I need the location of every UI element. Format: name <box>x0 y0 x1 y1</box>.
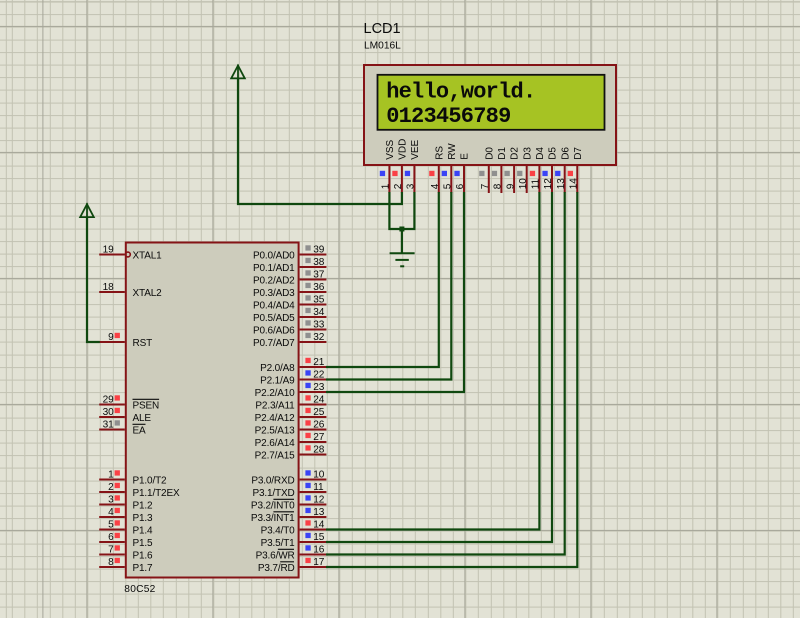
pin 35 P0.4/AD4 (right) <box>253 295 326 312</box>
wire U1 P2.0/A8 to LCD RS <box>326 192 439 367</box>
wire U1 P3.5/T1 to LCD D5 <box>326 192 552 542</box>
svg-text:P0.0/AD0: P0.0/AD0 <box>253 251 295 262</box>
svg-text:14: 14 <box>313 520 325 531</box>
LCD pin 2 VDD <box>392 139 408 193</box>
wire U1 P2.2/A10 to LCD E <box>326 192 464 392</box>
pin 14 P3.4/T0 (right) <box>261 520 327 537</box>
svg-text:P3.0/RXD: P3.0/RXD <box>251 476 294 487</box>
svg-text:P0.3/AD3: P0.3/AD3 <box>253 288 295 299</box>
svg-text:13: 13 <box>556 178 567 190</box>
svg-text:21: 21 <box>313 357 325 368</box>
svg-text:1: 1 <box>108 470 114 481</box>
svg-text:P3.1/TXD: P3.1/TXD <box>252 488 294 499</box>
80C52 microcontroller U1 body <box>126 243 299 578</box>
svg-text:D6: D6 <box>560 147 571 160</box>
svg-text:RW: RW <box>447 143 458 160</box>
svg-text:9: 9 <box>108 332 114 343</box>
LCD pin 14 D7 <box>568 147 584 193</box>
svg-text:P0.6/AD6: P0.6/AD6 <box>253 326 295 337</box>
pin 29 PSEN (left) <box>99 395 159 412</box>
LCD pin 10 D3 <box>517 147 533 193</box>
svg-text:4: 4 <box>430 183 441 189</box>
svg-text:10: 10 <box>518 178 529 190</box>
svg-text:36: 36 <box>313 282 325 293</box>
svg-text:11: 11 <box>531 178 542 189</box>
LCD pin 4 RS <box>429 146 445 193</box>
pin 1 P1.0/T2 (left) <box>99 470 167 487</box>
pin 21 P2.0/A8 (right) <box>260 357 326 374</box>
pin 32 P0.7/AD7 (right) <box>253 332 326 349</box>
svg-text:23: 23 <box>313 382 325 393</box>
LCD1 reference label <box>364 21 401 37</box>
svg-text:11: 11 <box>313 482 324 493</box>
svg-text:27: 27 <box>313 432 325 443</box>
svg-text:13: 13 <box>313 507 325 518</box>
svg-text:39: 39 <box>313 245 325 256</box>
pin 22 P2.1/A9 (right) <box>260 370 326 387</box>
svg-text:18: 18 <box>103 282 115 293</box>
pin 6 P1.5 (left) <box>99 532 153 549</box>
svg-text:P3.5/T1: P3.5/T1 <box>261 538 296 549</box>
pin 24 P2.3/A11 (right) <box>255 395 326 412</box>
svg-text:P3.4/T0: P3.4/T0 <box>261 526 296 537</box>
wire junction to ground <box>401 229 403 253</box>
junction dot <box>399 227 404 232</box>
pin 23 P2.2/A10 (right) <box>255 382 327 399</box>
pin 15 P3.5/T1 (right) <box>261 532 327 549</box>
LCD pin 11 D4 <box>530 147 546 193</box>
svg-text:24: 24 <box>313 395 325 406</box>
svg-text:30: 30 <box>103 407 115 418</box>
svg-text:P2.3/A11: P2.3/A11 <box>255 401 295 412</box>
svg-text:28: 28 <box>313 445 325 456</box>
svg-text:D4: D4 <box>535 147 546 160</box>
svg-text:LM016L: LM016L <box>364 41 401 52</box>
svg-text:XTAL2: XTAL2 <box>133 288 163 299</box>
svg-text:P1.5: P1.5 <box>133 538 154 549</box>
svg-text:19: 19 <box>103 245 115 256</box>
svg-text:5: 5 <box>108 520 114 531</box>
LCD pin 8 D1 <box>492 147 508 193</box>
pin 19 XTAL1 (left) <box>99 245 162 262</box>
wire U1 P3.4/T0 to LCD D4 <box>326 192 539 530</box>
svg-text:LCD1: LCD1 <box>364 21 401 37</box>
wire VDD arrow to LCD pin2 VDD <box>238 78 402 204</box>
pin 31 EA (left) <box>99 420 146 437</box>
svg-text:80C52: 80C52 <box>124 584 155 595</box>
svg-text:P1.3: P1.3 <box>133 513 154 524</box>
svg-text:32: 32 <box>313 332 325 343</box>
svg-text:D5: D5 <box>548 147 559 160</box>
LCD pin 7 D0 <box>479 147 495 193</box>
svg-text:P2.7/A15: P2.7/A15 <box>255 451 296 462</box>
svg-text:16: 16 <box>313 545 325 556</box>
svg-text:P3.3/INT1: P3.3/INT1 <box>251 513 295 524</box>
pin 25 P2.4/A12 (right) <box>255 407 327 424</box>
svg-text:P1.0/T2: P1.0/T2 <box>133 476 168 487</box>
svg-text:P0.2/AD2: P0.2/AD2 <box>253 276 295 287</box>
pin 26 P2.5/A13 (right) <box>255 420 327 437</box>
svg-text:0123456789: 0123456789 <box>386 104 510 129</box>
LCD screen with text <box>378 75 605 130</box>
svg-text:2: 2 <box>108 482 114 493</box>
svg-text:6: 6 <box>108 532 114 543</box>
pin 16 P3.6/WR (right) <box>256 545 327 562</box>
svg-text:17: 17 <box>313 557 325 568</box>
svg-text:PSEN: PSEN <box>133 401 160 412</box>
power terminal (RST arrow, left) <box>80 203 94 217</box>
svg-text:VEE: VEE <box>410 139 421 159</box>
svg-text:P0.5/AD5: P0.5/AD5 <box>253 313 295 324</box>
svg-text:1: 1 <box>381 183 392 189</box>
svg-text:33: 33 <box>313 320 325 331</box>
svg-text:12: 12 <box>543 178 554 190</box>
svg-text:10: 10 <box>313 470 325 481</box>
wire U1 P3.7/RD to LCD D7 <box>326 192 577 567</box>
svg-text:3: 3 <box>108 495 114 506</box>
LCD pin 5 RW <box>442 143 458 193</box>
svg-text:P0.7/AD7: P0.7/AD7 <box>253 338 295 349</box>
svg-text:38: 38 <box>313 257 325 268</box>
LCD display LCD1 LM016L body <box>364 65 616 165</box>
svg-text:4: 4 <box>108 507 114 518</box>
svg-text:D0: D0 <box>484 147 495 160</box>
svg-text:P0.4/AD4: P0.4/AD4 <box>253 301 295 312</box>
svg-text:P3.2/INT0: P3.2/INT0 <box>251 501 295 512</box>
LCD pin 13 D6 <box>555 147 571 193</box>
svg-text:P3.6/WR: P3.6/WR <box>256 551 295 562</box>
svg-text:37: 37 <box>313 270 325 281</box>
svg-text:P2.2/A10: P2.2/A10 <box>255 388 296 399</box>
svg-text:P2.5/A13: P2.5/A13 <box>255 426 296 437</box>
pin 17 P3.7/RD (right) <box>258 557 327 574</box>
wire LCD VSS pin1 to ground junction <box>389 192 402 229</box>
ground symbol <box>390 253 415 266</box>
pin 39 P0.0/AD0 (right) <box>253 245 326 262</box>
pin 12 P3.2/INT0 (right) <box>251 495 326 512</box>
svg-text:8: 8 <box>493 183 504 189</box>
svg-text:31: 31 <box>103 420 115 431</box>
LCD pin 9 D2 <box>505 147 521 193</box>
svg-text:P2.1/A9: P2.1/A9 <box>260 376 295 387</box>
svg-text:P2.6/A14: P2.6/A14 <box>255 438 296 449</box>
pin 10 P3.0/RXD (right) <box>251 470 326 487</box>
power terminal (VDD arrow, top) <box>231 65 245 79</box>
svg-text:RST: RST <box>133 338 153 349</box>
svg-text:EA: EA <box>133 426 147 437</box>
pin 33 P0.6/AD6 (right) <box>253 320 326 337</box>
svg-text:5: 5 <box>443 183 454 189</box>
pin 8 P1.7 (left) <box>99 557 153 574</box>
LCD pin 3 VEE <box>405 139 421 193</box>
pin 13 P3.3/INT1 (right) <box>251 507 326 524</box>
svg-text:P2.4/A12: P2.4/A12 <box>255 413 296 424</box>
pin 9 RST (left) <box>99 332 152 349</box>
pin 30 ALE (left) <box>99 407 151 424</box>
svg-text:P0.1/AD1: P0.1/AD1 <box>253 263 295 274</box>
pin 28 P2.7/A15 (right) <box>255 445 327 462</box>
pin 3 P1.2 (left) <box>99 495 153 512</box>
svg-text:D2: D2 <box>510 147 521 160</box>
svg-text:22: 22 <box>313 370 325 381</box>
svg-text:E: E <box>460 153 471 160</box>
svg-text:3: 3 <box>406 183 417 189</box>
pin 38 P0.1/AD1 (right) <box>253 257 326 274</box>
LCD pin 6 E <box>454 153 470 193</box>
svg-text:P3.7/RD: P3.7/RD <box>258 563 295 574</box>
svg-text:P1.2: P1.2 <box>133 501 154 512</box>
svg-text:29: 29 <box>103 395 115 406</box>
pin 2 P1.1/T2EX (left) <box>99 482 180 499</box>
svg-text:P1.7: P1.7 <box>133 563 154 574</box>
svg-text:XTAL1: XTAL1 <box>133 251 163 262</box>
pin 4 P1.3 (left) <box>99 507 153 524</box>
svg-text:P1.1/T2EX: P1.1/T2EX <box>133 488 180 499</box>
svg-text:P1.6: P1.6 <box>133 551 154 562</box>
wire RST arrow to U1 RST pin 9 <box>87 217 100 342</box>
svg-text:VSS: VSS <box>385 139 396 159</box>
svg-text:2: 2 <box>393 183 404 189</box>
pin 27 P2.6/A14 (right) <box>255 432 327 449</box>
svg-text:D3: D3 <box>522 147 533 160</box>
LCD pin 1 VSS <box>380 139 396 193</box>
svg-text:D7: D7 <box>573 147 584 160</box>
wire LCD VEE pin3 to ground junction <box>402 192 415 229</box>
LCD1 value label LM016L <box>364 41 401 52</box>
svg-text:12: 12 <box>313 495 325 506</box>
svg-text:P1.4: P1.4 <box>133 526 154 537</box>
svg-text:26: 26 <box>313 420 325 431</box>
pin 18 XTAL2 (left) <box>99 282 162 299</box>
svg-text:VDD: VDD <box>398 139 409 160</box>
U1 value label 80C52 <box>124 584 155 595</box>
wire U1 P3.6/WR to LCD D6 <box>326 192 565 555</box>
svg-text:14: 14 <box>569 178 580 190</box>
svg-text:P2.0/A8: P2.0/A8 <box>260 363 295 374</box>
svg-text:RS: RS <box>434 146 445 160</box>
pin 34 P0.5/AD5 (right) <box>253 307 326 324</box>
wire U1 P2.1/A9 to LCD RW <box>326 192 451 380</box>
svg-text:9: 9 <box>505 183 516 189</box>
svg-text:34: 34 <box>313 307 325 318</box>
LCD pin 12 D5 <box>542 147 558 193</box>
svg-text:ALE: ALE <box>133 413 152 424</box>
pin 7 P1.6 (left) <box>99 545 153 562</box>
pin 37 P0.2/AD2 (right) <box>253 270 326 287</box>
svg-text:6: 6 <box>455 183 466 189</box>
svg-text:25: 25 <box>313 407 325 418</box>
pin 5 P1.4 (left) <box>99 520 153 537</box>
svg-text:hello,world.: hello,world. <box>386 80 535 105</box>
svg-text:35: 35 <box>313 295 325 306</box>
svg-text:7: 7 <box>108 545 114 556</box>
svg-text:D1: D1 <box>497 147 508 160</box>
svg-text:15: 15 <box>313 532 325 543</box>
pin 36 P0.3/AD3 (right) <box>253 282 326 299</box>
pin 11 P3.1/TXD (right) <box>252 482 326 499</box>
svg-text:8: 8 <box>108 557 114 568</box>
svg-text:7: 7 <box>480 183 491 189</box>
